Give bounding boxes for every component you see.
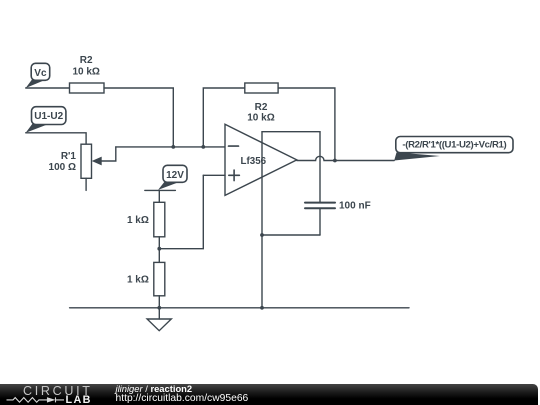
svg-text:R2: R2 bbox=[80, 55, 93, 66]
ground rail bbox=[70, 307, 409, 309]
resistor R2 (feedback) bbox=[245, 83, 278, 124]
footer bar bbox=[0, 384, 538, 405]
svg-text:R2: R2 bbox=[255, 102, 268, 113]
svg-text:Vc: Vc bbox=[34, 68, 47, 79]
wire bbox=[26, 133, 86, 144]
svg-text:10 kΩ: 10 kΩ bbox=[247, 113, 274, 124]
flag U1-U2 bbox=[26, 107, 66, 133]
wire to rail bbox=[261, 235, 263, 308]
wire pot bottom stub bbox=[85, 178, 87, 190]
vcc bar 12V bbox=[145, 189, 176, 191]
voltage source 12V flag bbox=[158, 165, 187, 190]
svg-text:Lf356: Lf356 bbox=[241, 156, 267, 167]
op-amp U1 Lf356 bbox=[225, 124, 297, 195]
svg-text:100 Ω: 100 Ω bbox=[49, 162, 76, 173]
wire output bbox=[335, 160, 394, 162]
resistor 1k lower bbox=[127, 262, 165, 295]
wire bbox=[158, 190, 160, 202]
node output bbox=[333, 159, 337, 163]
svg-text:LAB: LAB bbox=[66, 394, 92, 405]
node (feedback join) bbox=[201, 145, 205, 149]
wire feedback left bbox=[203, 88, 245, 147]
node rail-divider bbox=[157, 306, 161, 310]
wire inverting net bbox=[116, 146, 225, 148]
wire noninverting input bbox=[203, 174, 225, 176]
CircuitLab logo bbox=[0, 384, 112, 405]
svg-text:U1-U2: U1-U2 bbox=[34, 111, 63, 122]
svg-text:12V: 12V bbox=[166, 170, 184, 181]
node cap-ground bbox=[260, 233, 264, 237]
resistor R2 (input) bbox=[70, 55, 105, 93]
node rail-cap bbox=[260, 306, 264, 310]
svg-text:10 kΩ: 10 kΩ bbox=[72, 67, 99, 78]
wire bbox=[158, 296, 160, 308]
flag Vc bbox=[26, 63, 50, 88]
wire cap loop bottom bbox=[262, 234, 320, 236]
svg-text:1 kΩ: 1 kΩ bbox=[127, 215, 149, 226]
svg-text:-(R2/R'1*((U1-U2)+Vc/R1): -(R2/R'1*((U1-U2)+Vc/R1) bbox=[402, 140, 506, 151]
wire to divider bbox=[159, 175, 203, 248]
wire output with hop bbox=[297, 156, 335, 160]
wire bbox=[26, 87, 70, 89]
potentiometer R'1 bbox=[49, 144, 116, 178]
node divider tap bbox=[157, 247, 161, 251]
svg-text:R'1: R'1 bbox=[61, 151, 77, 162]
flag output formula bbox=[394, 137, 513, 161]
resistor 1k upper bbox=[127, 202, 165, 237]
credit text bbox=[116, 384, 249, 404]
wire cap loop top bbox=[262, 131, 320, 133]
wire bbox=[158, 237, 160, 263]
wire feedback right bbox=[278, 88, 335, 161]
wire cap loop left bbox=[261, 132, 263, 235]
wire bbox=[104, 88, 173, 147]
capacitor 100nF bbox=[305, 132, 371, 235]
svg-text:100 nF: 100 nF bbox=[339, 201, 371, 212]
ground symbol bbox=[147, 308, 171, 331]
node (R2 to inverting input) bbox=[171, 145, 175, 149]
svg-text:1 kΩ: 1 kΩ bbox=[127, 275, 149, 286]
